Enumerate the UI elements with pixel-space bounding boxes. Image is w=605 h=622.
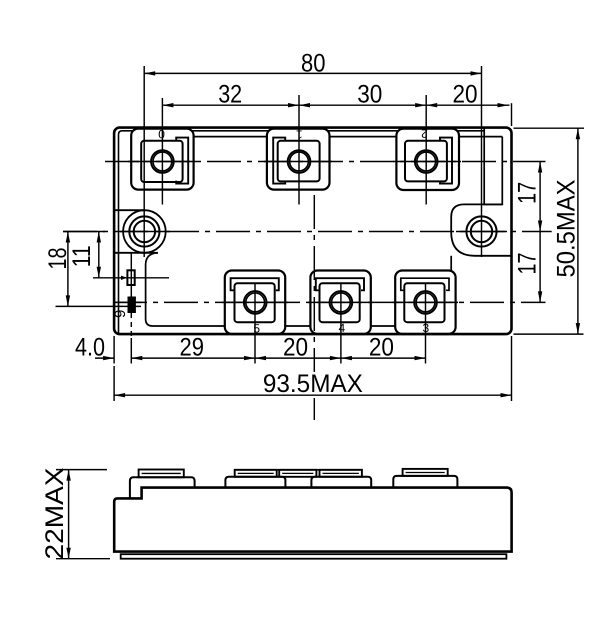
dimension 32 bbox=[162, 104, 299, 106]
side view body bbox=[114, 488, 511, 552]
svg-text:4.0: 4.0 bbox=[75, 334, 105, 362]
extension line module top right bbox=[514, 127, 585, 129]
svg-text:9: 9 bbox=[112, 310, 129, 318]
svg-text:29: 29 bbox=[180, 334, 205, 362]
dimension 17 upper bbox=[539, 162, 541, 232]
inner cavity wall left + bottom bbox=[146, 253, 457, 326]
centerline terminal 2 vertical bbox=[425, 95, 427, 205]
control pin 2 (filled) bbox=[128, 297, 135, 313]
extension line 20 right bbox=[511, 103, 513, 126]
svg-text:50.5MAX: 50.5MAX bbox=[552, 180, 580, 278]
nut bracket terminal 4 bbox=[316, 278, 364, 290]
inner square terminal 5 bbox=[235, 283, 275, 322]
dimension 18 bbox=[67, 232, 69, 307]
nut bracket terminal 0 bbox=[176, 138, 188, 184]
dimension 29 bbox=[131, 357, 255, 359]
centerline mount hole right vertical bbox=[481, 66, 483, 257]
centerline terminal 5 vertical bbox=[254, 283, 256, 364]
centerline mounting holes bbox=[63, 231, 552, 233]
screw circle terminal 5 bbox=[244, 291, 267, 314]
control pin 1 (hollow) bbox=[127, 270, 134, 285]
module outer outline bbox=[114, 128, 511, 335]
centerline terminal 3 vertical bbox=[425, 283, 427, 364]
nut bracket terminal 1 bbox=[273, 138, 285, 184]
centerline control pins vertical bbox=[130, 253, 132, 313]
svg-text:93.5MAX: 93.5MAX bbox=[263, 370, 363, 398]
extension line module bottom right bbox=[514, 333, 584, 335]
nut bracket terminal 3 bbox=[401, 278, 449, 290]
inner square terminal 0 bbox=[141, 141, 182, 182]
svg-text:4: 4 bbox=[338, 321, 345, 335]
terminal housing 0 (top-left) bbox=[131, 129, 193, 190]
dimension 50.5MAX bbox=[577, 128, 579, 334]
mounting hole left bbox=[129, 216, 159, 246]
centerline top terminal row bbox=[105, 161, 546, 163]
inner square terminal 2 bbox=[405, 141, 447, 182]
svg-text:20: 20 bbox=[283, 334, 308, 362]
inner square terminal 4 bbox=[320, 283, 360, 322]
inner square terminal 1 bbox=[278, 141, 320, 182]
vertical wall below right boss bbox=[450, 256, 452, 271]
bump cap terminal 2/3 bbox=[403, 469, 448, 476]
terminal housing 1 (top-middle) bbox=[267, 129, 330, 190]
screw circle terminal 0 bbox=[151, 150, 174, 173]
centerline mount hole left vertical bbox=[143, 66, 145, 257]
lid notch at top-right bbox=[484, 128, 502, 205]
centerline terminal 1 vertical bbox=[298, 95, 300, 205]
screw circle terminal 2 bbox=[415, 150, 438, 173]
screw circle terminal 4 bbox=[330, 291, 353, 314]
svg-text:20: 20 bbox=[369, 334, 394, 362]
reference line pin 1 (11 dim) bbox=[93, 277, 169, 279]
dimension 20 (bottom right) bbox=[341, 357, 426, 359]
inner square terminal 3 bbox=[404, 283, 444, 322]
dimension 80 bbox=[144, 72, 481, 74]
bump base terminal 1/4 bbox=[311, 477, 371, 488]
bump base terminal 5 bbox=[225, 477, 285, 488]
bump cap terminal 1 bbox=[279, 470, 316, 477]
dimension 20 (bottom left) bbox=[255, 357, 341, 359]
bump cap terminal 0 bbox=[139, 470, 184, 478]
svg-text:17: 17 bbox=[513, 253, 541, 275]
reference line pin 2 (18 dim) bbox=[56, 305, 142, 307]
bump cap terminal 5 bbox=[235, 470, 277, 477]
screw circle terminal 1 bbox=[288, 150, 311, 173]
svg-text:2: 2 bbox=[421, 127, 428, 141]
right mount boss outline bbox=[451, 204, 511, 255]
module vertical centerline bbox=[313, 195, 315, 372]
svg-text:3: 3 bbox=[422, 321, 429, 335]
svg-text:11: 11 bbox=[68, 245, 96, 267]
terminal housing 4 (bottom-middle) bbox=[310, 271, 370, 335]
extension line cap top bbox=[56, 469, 107, 471]
svg-text:30: 30 bbox=[357, 81, 382, 109]
dimension 93.5MAX bbox=[114, 394, 511, 396]
bump cap terminal 4 bbox=[320, 470, 362, 477]
bump base terminal 2/3 bbox=[393, 476, 457, 488]
nut bracket terminal 2 bbox=[440, 138, 452, 184]
centerline terminal 4 vertical bbox=[340, 283, 342, 364]
inner lid line (top) bbox=[131, 136, 502, 138]
dimension 30 bbox=[299, 104, 426, 106]
extension line mount centerline left bbox=[63, 231, 105, 233]
dimension 17 lower bbox=[539, 232, 541, 303]
svg-text:17: 17 bbox=[513, 182, 541, 204]
extension line module left (93.5) bbox=[113, 366, 115, 401]
screw circle terminal 3 bbox=[414, 291, 437, 314]
svg-text:0: 0 bbox=[158, 127, 165, 141]
svg-text:1: 1 bbox=[296, 127, 303, 141]
svg-text:22MAX: 22MAX bbox=[41, 468, 69, 560]
svg-text:80: 80 bbox=[301, 49, 326, 77]
centerline terminal 0 vertical bbox=[161, 98, 163, 205]
terminal housing 2 (top-right) bbox=[396, 129, 459, 190]
left mount boss outline bbox=[123, 210, 166, 253]
bump base terminal 0 bbox=[130, 477, 195, 498]
centerline bottom terminal row bbox=[113, 301, 546, 303]
terminal housing 5 (bottom-left) bbox=[225, 271, 285, 335]
extension line baseplate bottom bbox=[56, 558, 110, 560]
small arrow at pin 1 bbox=[121, 276, 127, 280]
svg-text:5: 5 bbox=[253, 322, 260, 336]
extension line module right (93.5) bbox=[511, 336, 513, 401]
dimension 11 bbox=[98, 232, 100, 278]
dimension 22MAX bbox=[68, 470, 70, 559]
nut bracket terminal 5 bbox=[231, 278, 279, 290]
svg-text:20: 20 bbox=[452, 81, 477, 109]
terminal housing 3 (bottom-right) bbox=[395, 271, 455, 335]
svg-text:32: 32 bbox=[218, 81, 242, 109]
lid parting line (left+top inner offset) bbox=[119, 131, 485, 333]
mounting hole right bbox=[466, 216, 496, 246]
dimension 20 (top) bbox=[426, 104, 509, 106]
dimension 4.0 bbox=[95, 357, 114, 359]
extension line module left bottom bbox=[113, 336, 115, 364]
baseplate bbox=[121, 554, 507, 559]
